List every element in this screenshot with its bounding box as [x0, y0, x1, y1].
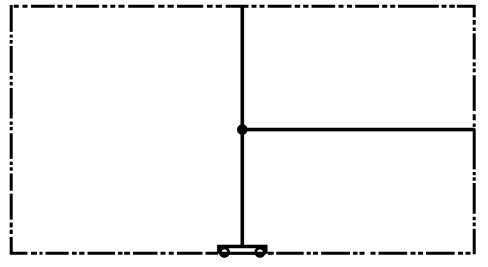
wire W1 vertical from top boundary down to trolley yoke: [241, 5, 245, 247]
junction node J1 (solder dot): [237, 124, 248, 135]
trolley U1 right wheel: [256, 248, 264, 256]
wire W2 horizontal branch from junction J1 to right boundary: [242, 128, 474, 132]
trolley U1 left wheel: [220, 248, 228, 256]
enclosure boundary E1 right edge (phantom dashed line): [473, 5, 476, 254]
boundary rail segment passing through trolley U1 wheels: [220, 252, 266, 255]
trolley U1 yoke bar with end stubs: [219, 247, 266, 254]
enclosure boundary E1 left edge (phantom dashed line): [10, 5, 13, 254]
enclosure boundary E1 top edge (phantom dashed line): [14, 5, 475, 8]
enclosure boundary E1 bottom edge (phantom dashed line): [10, 252, 471, 255]
